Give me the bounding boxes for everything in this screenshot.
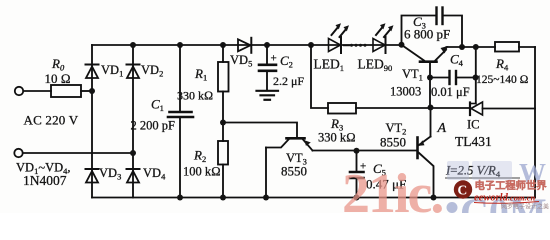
capacitor C3 6800pF feedback box xyxy=(402,8,463,48)
svg-text:LED90: LED90 xyxy=(358,57,393,74)
svg-text:VD4: VD4 xyxy=(143,166,166,182)
svg-text:IC: IC xyxy=(467,118,480,132)
node top rail / C1 branch xyxy=(177,42,183,48)
svg-text:VD5: VD5 xyxy=(230,53,252,69)
svg-text:C2: C2 xyxy=(280,53,293,70)
capacitor C4 xyxy=(430,71,476,84)
node C4 right junction xyxy=(473,75,479,81)
transistor VT2 xyxy=(418,137,434,198)
diode VD3 xyxy=(86,169,99,183)
wire VT3 emitter to VT2 base xyxy=(313,150,417,152)
svg-text:VD1: VD1 xyxy=(101,63,123,79)
watermark blue blocks row1 xyxy=(447,158,546,188)
capacitor C1 xyxy=(168,45,193,198)
wire R3 branch vertical xyxy=(311,45,328,108)
wire R4 to right edge xyxy=(519,46,535,48)
node A junction xyxy=(428,105,434,111)
svg-text:8550: 8550 xyxy=(380,135,406,150)
wire VT1 emitter to R4 xyxy=(447,46,496,48)
wire R1 top lead xyxy=(222,45,224,62)
wire formula underline xyxy=(445,177,520,179)
watermark eeworld circle logo xyxy=(454,180,472,198)
svg-text:电子工程师世界: 电子工程师世界 xyxy=(475,179,548,192)
svg-text:13003: 13003 xyxy=(390,85,421,99)
svg-text:21ic.: 21ic. xyxy=(342,163,442,213)
wire R0 to bridge xyxy=(81,90,92,92)
svg-text:10 Ω: 10 Ω xyxy=(45,71,71,86)
svg-text:TL431: TL431 xyxy=(455,134,492,149)
svg-text:125~140 Ω: 125~140 Ω xyxy=(476,74,529,86)
resistor R3 xyxy=(328,103,356,114)
transistor VT3 xyxy=(266,138,313,197)
svg-text:AC 220 V: AC 220 V xyxy=(24,113,79,128)
node bottom rail / C1 xyxy=(177,195,183,201)
resistor R2 xyxy=(218,141,228,165)
svg-text:C1: C1 xyxy=(151,97,164,114)
svg-text:R1: R1 xyxy=(194,66,207,83)
svg-text:1N4007: 1N4007 xyxy=(23,173,67,188)
svg-text:VD3: VD3 xyxy=(99,166,121,182)
svg-text:LED1: LED1 xyxy=(314,57,345,74)
node emitter wire / ref vertical xyxy=(473,44,479,50)
LED LED1 xyxy=(329,23,350,53)
diode VD4 xyxy=(127,169,140,183)
svg-text:100 kΩ: 100 kΩ xyxy=(183,165,221,179)
svg-text:VD2: VD2 xyxy=(141,63,163,79)
wire bridge left branch xyxy=(91,45,93,198)
node top rail / R3 branch xyxy=(308,42,314,48)
wire AC top lead xyxy=(23,90,51,92)
node A vertical (VT1 base / C4 / R3 / VT2 emitter) xyxy=(429,78,431,108)
diode VD1 xyxy=(86,65,99,79)
node top rail / R1 branch xyxy=(220,42,226,48)
node bottom rail / VT3 collector xyxy=(263,195,269,201)
wire TL431 ref vertical xyxy=(475,47,477,104)
svg-text:330 kΩ: 330 kΩ xyxy=(177,89,213,103)
wire bottom rail xyxy=(92,197,535,199)
node divider junction xyxy=(220,120,226,126)
svg-text:R2: R2 xyxy=(193,148,206,165)
ground xyxy=(257,91,279,100)
svg-text:网罗电子设计之美: 网罗电子设计之美 xyxy=(501,203,549,211)
svg-text:C: C xyxy=(458,183,468,198)
wire R1 to R2 xyxy=(222,92,224,142)
node C4 left junction xyxy=(427,75,433,81)
wire R3 to TL431 (node A line) xyxy=(356,107,470,109)
svg-text:VT1: VT1 xyxy=(402,67,423,83)
resistor R4 xyxy=(495,42,519,52)
wire top rail xyxy=(92,44,402,46)
capacitor C5 xyxy=(350,151,364,198)
svg-text:A: A xyxy=(437,121,447,136)
svg-text:8550: 8550 xyxy=(281,164,307,179)
node bottom rail / C5 xyxy=(354,195,360,201)
terminal N (AC bottom) xyxy=(14,149,22,157)
svg-text:6 800 pF: 6 800 pF xyxy=(404,27,450,42)
watermark blue .COM row2 xyxy=(447,190,547,235)
node C5 top junction xyxy=(354,148,360,154)
diode VD2 xyxy=(127,65,140,79)
svg-text:330 kΩ: 330 kΩ xyxy=(318,131,356,145)
wire AC bottom lead xyxy=(23,152,133,154)
svg-text:2 200 pF: 2 200 pF xyxy=(131,119,176,133)
IC TL431 xyxy=(470,102,535,115)
LED LED90 xyxy=(373,23,394,53)
node bottom rail / R2 xyxy=(220,195,226,201)
transistor VT1 xyxy=(403,46,449,78)
node top rail / C2 branch xyxy=(264,42,270,48)
svg-text:0.01 μF: 0.01 μF xyxy=(431,85,470,99)
wire bridge right branch xyxy=(132,45,134,198)
node AC-bridge junction xyxy=(130,150,136,156)
resistor R0 xyxy=(51,85,81,97)
svg-text:C4: C4 xyxy=(450,52,464,69)
wire dotted LED string xyxy=(350,44,367,47)
node bottom rail / VT2 collector xyxy=(431,195,437,201)
svg-text:2.2 μF: 2.2 μF xyxy=(273,74,304,88)
node R0-bridge junction xyxy=(89,88,95,94)
svg-text:R4: R4 xyxy=(495,56,509,73)
node LED cathode / C3 box / VT1 collector xyxy=(399,42,405,48)
resistor R1 xyxy=(218,62,229,92)
svg-text:+: + xyxy=(271,53,277,65)
diode VD5 xyxy=(238,38,251,53)
svg-text:eeworld.com.cn: eeworld.com.cn xyxy=(474,193,535,204)
node VT1 emitter wire / C3 xyxy=(459,44,465,50)
node top rail / VD2 branch xyxy=(130,42,136,48)
terminal L (AC top) xyxy=(15,87,23,95)
wire R2 bottom lead xyxy=(222,165,224,198)
wire divider to VT3 base xyxy=(223,123,297,137)
watermark eeworld swoosh xyxy=(474,202,539,204)
capacitor C2 xyxy=(259,45,276,90)
wire right edge vertical xyxy=(534,47,536,198)
